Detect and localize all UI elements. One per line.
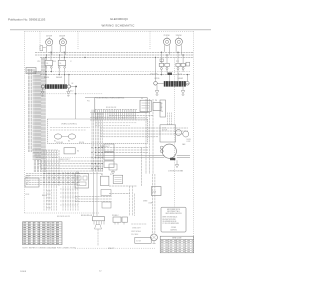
- svg-text:CODES: CODES: [171, 227, 176, 229]
- svg-text:OVEN DOOR TT: OVEN DOOR TT: [59, 159, 70, 161]
- svg-text:P3 BK: P3 BK: [47, 194, 51, 196]
- svg-text:P4 BK: P4 BK: [47, 197, 51, 199]
- svg-text:RD-8: RD-8: [70, 91, 73, 93]
- svg-text:GROUNDING DEVICES: GROUNDING DEVICES: [165, 213, 181, 215]
- svg-text:16308: 16308: [20, 271, 27, 273]
- svg-text:P10: P10: [76, 172, 79, 174]
- svg-text:GLEF396CQC: GLEF396CQC: [110, 17, 128, 21]
- svg-text:P30: P30: [96, 166, 99, 168]
- svg-text:J2: J2: [70, 61, 72, 63]
- svg-text:BK-101: BK-101: [42, 195, 47, 197]
- svg-text:P3: P3: [101, 174, 103, 176]
- svg-text:OVEN CONTROL: OVEN CONTROL: [61, 123, 78, 125]
- svg-text:K1: K1: [54, 141, 56, 143]
- svg-text:OL SW: OL SW: [136, 240, 141, 242]
- svg-text:K4: K4: [77, 150, 79, 152]
- svg-text:1350W: 1350W: [176, 35, 182, 37]
- svg-text:BK-RD-WH-TT: BK-RD-WH-TT: [100, 146, 110, 148]
- svg-text:P6: P6: [155, 100, 157, 102]
- svg-text:RL: RL: [59, 63, 61, 65]
- svg-text:P2 BK: P2 BK: [47, 191, 51, 193]
- svg-text:NOTE: REFER TO WIRING DIAGRAM: NOTE: REFER TO WIRING DIAGRAM FOR CONNEC…: [23, 247, 77, 250]
- svg-text:BK: BK: [161, 107, 163, 109]
- svg-text:P6 BK: P6 BK: [47, 204, 51, 206]
- svg-text:P1: P1: [110, 174, 112, 176]
- svg-text:LOCK: LOCK: [25, 194, 29, 196]
- svg-text:P12: P12: [176, 61, 179, 63]
- svg-text:ELECTRONIC OVEN CONTROL: ELECTRONIC OVEN CONTROL: [97, 98, 125, 100]
- svg-text:DLM: DLM: [153, 192, 157, 194]
- svg-text:BK WH RD GN OR: BK WH RD GN OR: [57, 216, 71, 218]
- svg-text:GLEF396: GLEF396: [170, 229, 177, 231]
- svg-text:RD: RD: [161, 103, 163, 105]
- svg-text:LOCK: LOCK: [162, 127, 166, 129]
- svg-text:3400W: 3400W: [178, 78, 184, 80]
- svg-text:2570W: 2570W: [46, 35, 52, 37]
- svg-text:RD BK WH OR: RD BK WH OR: [106, 107, 117, 109]
- svg-text:N.C.: N.C.: [26, 184, 30, 186]
- svg-text:BK-WH-RD-GN: BK-WH-RD-GN: [81, 215, 93, 217]
- svg-text:WH: WH: [161, 111, 163, 113]
- svg-text:P7 BK: P7 BK: [47, 208, 51, 210]
- svg-text:BK-WH: BK-WH: [79, 142, 84, 144]
- svg-text:3000W: 3000W: [56, 77, 62, 79]
- svg-text:TT-2: TT-2: [25, 178, 28, 180]
- svg-text:YL YELLOW BR BROWN: YL YELLOW BR BROWN: [162, 223, 178, 225]
- svg-text:DOOR: DOOR: [187, 139, 191, 141]
- svg-text:BAKE: BAKE: [44, 76, 50, 79]
- svg-text:P5: P5: [141, 98, 143, 100]
- svg-text:LOCK: LOCK: [187, 141, 191, 143]
- svg-text:TOD 600W: TOD 600W: [150, 74, 158, 76]
- svg-text:WH WHITE RD RED: WH WHITE RD RED: [162, 219, 175, 221]
- svg-text:Publication No. 5995611103: Publication No. 5995611103: [8, 18, 46, 22]
- svg-text:RL: RL: [46, 63, 48, 65]
- svg-text:MOTOR: MOTOR: [162, 130, 167, 132]
- svg-text:OVEN LIGHT: OVEN LIGHT: [132, 227, 141, 229]
- svg-text:P13: P13: [38, 61, 41, 63]
- svg-text:RD-2 BK-8: RD-2 BK-8: [131, 234, 138, 236]
- svg-text:K3 RD-BK: K3 RD-BK: [56, 142, 63, 144]
- svg-text:1350W: 1350W: [59, 35, 65, 37]
- svg-text:GN GREEN BL BLUE: GN GREEN BL BLUE: [162, 221, 176, 223]
- svg-text:WIRING SCHEMATIC: WIRING SCHEMATIC: [102, 24, 135, 28]
- svg-text:SWITCH WH-4: SWITCH WH-4: [131, 231, 141, 233]
- svg-text:BK: BK: [72, 83, 74, 85]
- svg-text:K2: K2: [68, 141, 70, 143]
- svg-text:CONVECTION FAN: CONVECTION FAN: [168, 170, 184, 173]
- svg-text:P31: P31: [87, 100, 90, 102]
- svg-text:OVEN: OVEN: [143, 200, 147, 202]
- svg-text:P5 BK: P5 BK: [47, 201, 51, 203]
- svg-text:P20 BK-2: P20 BK-2: [112, 215, 119, 217]
- svg-text:P15: P15: [53, 61, 56, 63]
- svg-text:2570W: 2570W: [164, 35, 170, 37]
- svg-text:P27: P27: [122, 118, 125, 120]
